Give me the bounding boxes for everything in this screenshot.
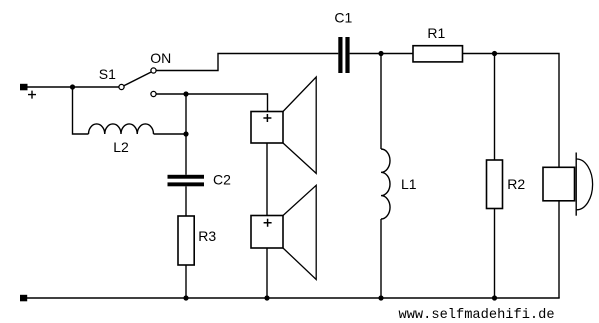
speaker LS1 cone (283, 77, 316, 173)
svg-text:ON: ON (150, 50, 171, 66)
svg-text:R3: R3 (198, 228, 216, 244)
switch S1 common contact (119, 84, 124, 89)
wire: R1 to right vertical (463, 54, 560, 168)
speaker LS2 cone (283, 185, 316, 279)
tweeter dome arc (577, 159, 593, 210)
speaker LS2 driver box (251, 216, 283, 249)
resistor R1 (413, 46, 463, 62)
switch S1 lower (off) contact (151, 91, 156, 96)
node: junction L1 top (378, 51, 383, 56)
input terminal + (top left) (20, 84, 28, 91)
svg-text:L2: L2 (113, 139, 129, 155)
node: bottom junction R2 (492, 295, 497, 300)
plus label at input terminal (28, 91, 36, 99)
node: junction at x=72 on plus wire (70, 84, 75, 89)
speaker LS2 plus mark (264, 219, 272, 227)
speaker LS1 plus mark (263, 114, 271, 122)
inductor L2 (89, 124, 154, 134)
resistor R3 (178, 216, 194, 265)
tweeter front plate line (575, 153, 577, 216)
switch S1 ON contact (151, 68, 156, 73)
node: bottom junction LS2 (264, 295, 269, 300)
capacitor C1 (338, 37, 342, 73)
node: bottom junction R3 (183, 295, 188, 300)
wire: ON contact to top rail step (156, 54, 338, 71)
svg-text:C1: C1 (334, 10, 352, 26)
minus terminal (bottom left) (20, 295, 27, 302)
svg-text:L1: L1 (401, 176, 417, 192)
wire: LS2 to bottom rail (266, 248, 268, 298)
wire: terminal to switch common (28, 86, 120, 88)
wire: LS1 to LS2 (266, 143, 268, 216)
svg-text:R2: R2 (507, 176, 525, 192)
bottom rail wire (27, 297, 560, 299)
inductor L1 (381, 149, 390, 219)
svg-text:www.selfmadehifi.de: www.selfmadehifi.de (399, 308, 555, 323)
wire: R3 to bottom rail (185, 265, 187, 298)
wire: vertical to C2 (185, 94, 187, 175)
wire: C1 to R1 (350, 53, 413, 55)
node: junction R2 top (492, 51, 497, 56)
wire: lower contact to midrange branch (156, 94, 267, 112)
wire: L1 bottom lead (380, 219, 382, 298)
wire: R2 top lead (494, 54, 496, 161)
wire: R2 bottom lead (494, 209, 496, 299)
wire: L1 top lead (380, 54, 382, 150)
speaker LS1 driver box (251, 112, 283, 144)
switch S1 lever (124, 72, 151, 86)
capacitor C2 (168, 175, 205, 179)
node: junction L2 / C2 branch (183, 131, 188, 136)
svg-text:S1: S1 (99, 66, 116, 82)
node: junction C2 top branch (183, 91, 188, 96)
tweeter driver box (543, 167, 575, 201)
wire: tweeter to bottom rail (558, 201, 560, 298)
wire: L2 right to vertical node (154, 133, 187, 135)
svg-text:R1: R1 (427, 25, 445, 41)
node: bottom junction L1 (378, 295, 383, 300)
svg-text:C2: C2 (213, 172, 231, 188)
wire: junction down to L2 left (73, 87, 89, 134)
wire: C2 to R3 (185, 186, 187, 216)
resistor R2 (487, 160, 503, 209)
